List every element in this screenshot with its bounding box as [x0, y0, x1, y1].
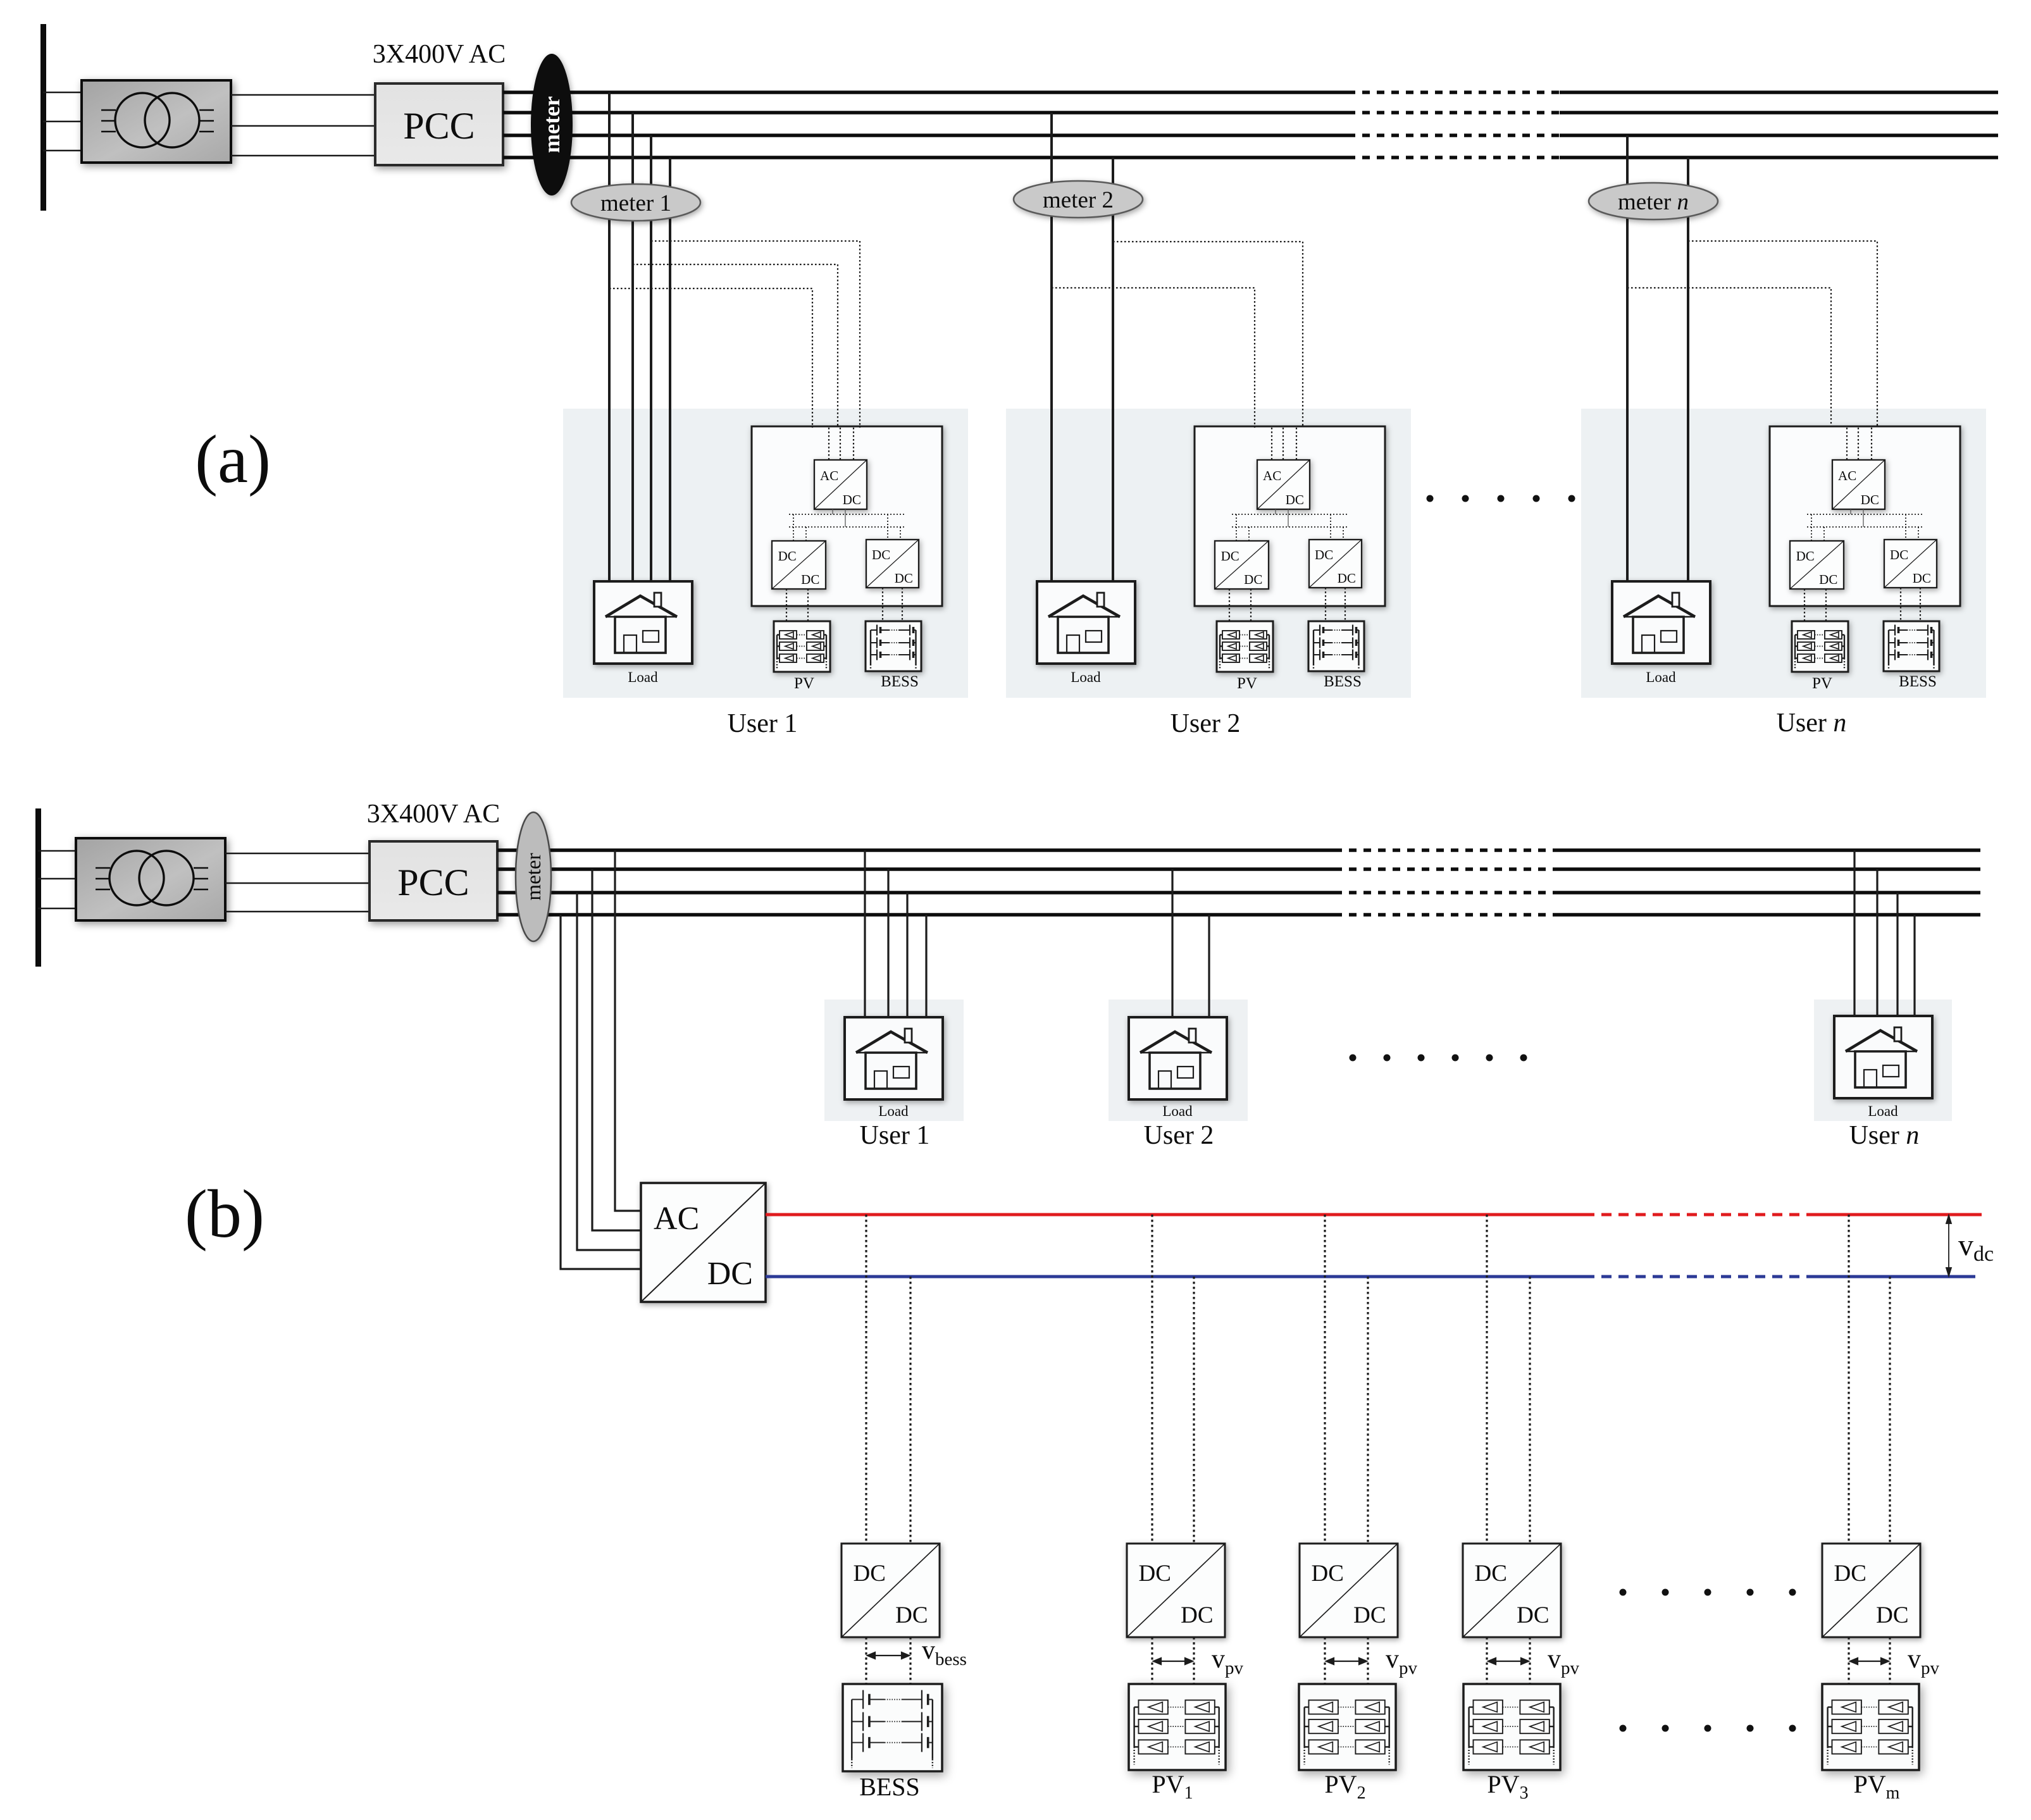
svg-text:AC: AC — [1838, 468, 1856, 483]
svg-text:DC: DC — [1834, 1561, 1866, 1587]
battery BESS icon user 2 (a) — [1308, 621, 1364, 671]
svg-text:(b): (b) — [185, 1177, 264, 1252]
wire bus to AC/DC inverter leg 3 (b) — [577, 893, 641, 1250]
svg-text:Load: Load — [628, 669, 658, 685]
wire AC/DC to DC link user 1 (a) — [833, 509, 845, 527]
inverter AC/DC user 1 (a) — [814, 460, 867, 509]
svg-text:PV: PV — [1237, 675, 1257, 692]
svg-text:DC: DC — [707, 1256, 753, 1292]
svg-text:Load: Load — [1071, 669, 1101, 685]
svg-text:meter 1: meter 1 — [600, 190, 671, 216]
load house icon user 2 (a) — [1037, 581, 1135, 664]
wire feeders to load user 2 (b) — [1172, 869, 1209, 1017]
grid bus bar (b) — [35, 808, 41, 967]
svg-text:Load: Load — [878, 1103, 909, 1119]
svg-text:Load: Load — [1868, 1103, 1898, 1119]
vpv arrow PVm (b) — [1850, 1658, 1889, 1664]
svg-text:DC: DC — [895, 1602, 928, 1628]
svg-text:3X400V AC: 3X400V AC — [367, 800, 500, 829]
converter DC/DC BESS (b) — [842, 1544, 940, 1637]
svg-text:User 2: User 2 — [1144, 1121, 1214, 1150]
converter DC/DC PV user 1 (a) — [772, 541, 826, 589]
battery BESS icon user n (a) — [1884, 621, 1939, 671]
svg-text:AC: AC — [820, 468, 838, 483]
wire DC link to BESS converter user 2 (a) — [1331, 514, 1343, 540]
continuation dots upper row between PV3 and PVm (b) — [1620, 1589, 1796, 1596]
svg-text:vdc: vdc — [1958, 1229, 1994, 1266]
wire dotted feeders into enclosure user 2 (a) — [1272, 428, 1296, 460]
svg-text:User 1: User 1 — [728, 709, 798, 738]
main meter (b) — [516, 812, 551, 941]
wire BESS converter to battery user 2 (a) — [1326, 588, 1345, 621]
wires transformer to PCC (b) — [225, 853, 370, 912]
load house icon user n (a) — [1612, 581, 1710, 664]
user n shaded area (a) — [1581, 409, 1986, 698]
svg-text:DC: DC — [1517, 1602, 1549, 1628]
svg-text:AC: AC — [1263, 468, 1281, 483]
svg-text:BESS: BESS — [1324, 673, 1362, 690]
wire bus to AC/DC inverter leg 2 (b) — [592, 869, 641, 1230]
wire grid bar to transformer (b) — [38, 851, 76, 908]
wire DC link to PV converter user 1 (a) — [793, 514, 806, 541]
svg-text:(a): (a) — [195, 422, 271, 497]
converter DC/DC PV user 2 (a) — [1215, 541, 1269, 589]
vdc arrow (b) — [1946, 1215, 1951, 1276]
load house icon user 1 (a) — [594, 581, 692, 664]
svg-text:vpv: vpv — [1386, 1645, 1418, 1678]
wire feeders meter n to load user n (a) — [1627, 135, 1688, 581]
svg-text:DC: DC — [1474, 1561, 1506, 1587]
wire red bus to PVm converter (b) — [1848, 1215, 1849, 1544]
converter DC/DC PVm (b) — [1822, 1544, 1920, 1637]
wire PV1 converter to array (b) — [1152, 1637, 1194, 1684]
grid bus bar (a) — [40, 24, 46, 211]
meter n ellipse (a) — [1589, 183, 1718, 220]
svg-text:DC: DC — [1913, 571, 1931, 586]
wire red bus to PV3 converter (b) — [1486, 1215, 1488, 1544]
PV array icon user n (a) — [1792, 621, 1848, 672]
transformer T1 (a) — [82, 80, 231, 163]
converter DC/DC PV user n (a) — [1790, 541, 1844, 589]
meter 2 ellipse (a) — [1014, 181, 1143, 218]
battery BESS icon user 1 (a) — [866, 621, 921, 671]
wire PV converter to PV array user n (a) — [1804, 589, 1826, 621]
wire feeders meter1 to load user 1 (a) — [609, 92, 670, 581]
converter DC/DC PV1 (b) — [1127, 1544, 1225, 1637]
inverter AC/DC user n (a) — [1832, 460, 1885, 509]
vpv arrow PV1 (b) — [1153, 1658, 1193, 1664]
PV array icon user 1 (a) — [774, 621, 830, 672]
wire dotted feeders into enclosure user 1 (a) — [829, 428, 854, 460]
wire bus to AC/DC inverter leg 1 (b) — [615, 850, 641, 1211]
wire red bus to BESS converter (b) — [865, 1215, 867, 1544]
svg-text:BESS: BESS — [1899, 673, 1937, 690]
user 1 converter enclosure (a) — [752, 426, 942, 606]
user 2 shaded area (b) — [1109, 1000, 1248, 1121]
wire DC link to BESS converter user 1 (a) — [888, 514, 900, 540]
DC bus positive red (b) — [766, 1213, 1584, 1216]
converter DC/DC BESS user 1 (a) — [866, 540, 919, 588]
wire dotted tap L3 user 1 (a) — [609, 288, 812, 428]
DC bus negative blue (b) — [766, 1275, 1584, 1278]
main meter (a) — [531, 54, 573, 195]
meter 1 ellipse (a) — [571, 184, 700, 221]
svg-text:DC: DC — [778, 548, 797, 564]
PV array icon PV3 (b) — [1463, 1684, 1560, 1770]
transformer T1 (b) — [76, 838, 225, 920]
wire BESS converter to battery (b) — [866, 1637, 910, 1684]
PV array icon PV1 (b) — [1129, 1684, 1226, 1770]
wire blue bus to BESS converter (b) — [909, 1277, 911, 1544]
wire BESS converter to battery user n (a) — [1901, 588, 1920, 621]
load house icon user 1 (b) — [845, 1017, 943, 1099]
wire feeders meter2 to load user 2 (a) — [1052, 113, 1113, 581]
svg-text:DC: DC — [843, 492, 861, 507]
wire blue bus to PVm converter (b) — [1889, 1277, 1891, 1544]
svg-text:DC: DC — [1221, 548, 1239, 564]
wire PV3 converter to array (b) — [1487, 1637, 1530, 1684]
svg-text:DC: DC — [1890, 547, 1908, 562]
load house icon user 2 (b) — [1129, 1017, 1227, 1099]
svg-text:vpv: vpv — [1548, 1645, 1580, 1678]
vpv arrow PV2 (b) — [1326, 1658, 1367, 1664]
svg-text:PCC: PCC — [403, 105, 475, 147]
svg-text:PVm: PVm — [1854, 1770, 1900, 1803]
wire dotted feeders into enclosure user n (a) — [1847, 428, 1872, 460]
user 2 converter enclosure (a) — [1195, 426, 1385, 606]
PCC box (a) — [375, 84, 503, 165]
svg-text:DC: DC — [1861, 492, 1879, 507]
svg-text:meter n: meter n — [1618, 189, 1689, 215]
svg-text:Load: Load — [1646, 669, 1676, 685]
wire dotted tap L2 user 1 (a) — [633, 264, 838, 428]
wire PV2 converter to array (b) — [1325, 1637, 1368, 1684]
svg-text:User 1: User 1 — [860, 1121, 930, 1150]
continuation dots between users (a) — [1427, 495, 1611, 502]
svg-text:DC: DC — [1819, 572, 1837, 587]
converter DC/DC BESS user 2 (a) — [1309, 540, 1362, 588]
central inverter AC/DC (b) — [641, 1183, 766, 1302]
wire dotted tap L1 user 2 (a) — [1113, 242, 1303, 428]
user n converter enclosure (a) — [1770, 426, 1960, 606]
svg-text:User 2: User 2 — [1171, 709, 1241, 738]
wire red bus to PV1 converter (b) — [1151, 1215, 1153, 1544]
svg-text:PV: PV — [1812, 675, 1832, 692]
svg-text:DC: DC — [895, 571, 913, 586]
vbess arrow (b) — [867, 1652, 909, 1659]
wire blue bus to PV2 converter (b) — [1367, 1277, 1369, 1544]
DC link bus user 2 (a) — [1232, 514, 1348, 527]
svg-text:PV2: PV2 — [1324, 1770, 1365, 1803]
wire blue bus to PV3 converter (b) — [1529, 1277, 1531, 1544]
wire AC/DC to DC link user n (a) — [1851, 509, 1863, 527]
AC bus phase 3 (b) — [497, 891, 1334, 895]
wire DC link to BESS converter user n (a) — [1906, 514, 1918, 540]
svg-text:BESS: BESS — [881, 673, 919, 690]
svg-text:DC: DC — [1876, 1602, 1908, 1628]
AC bus phase 2 (a) — [503, 111, 1348, 115]
user 2 shaded area (a) — [1006, 409, 1411, 698]
svg-text:DC: DC — [1181, 1602, 1213, 1628]
svg-text:DC: DC — [1796, 548, 1815, 564]
PV array icon PVm (b) — [1822, 1684, 1919, 1770]
wire PV converter to PV array user 1 (a) — [786, 589, 808, 621]
svg-text:DC: DC — [1311, 1561, 1343, 1587]
AC bus neutral (b) — [497, 913, 1334, 917]
wire blue bus to PV1 converter (b) — [1193, 1277, 1195, 1544]
wire dotted tap L2 user n (a) — [1627, 288, 1831, 426]
vpv arrow PV3 (b) — [1488, 1658, 1529, 1664]
inverter AC/DC user 2 (a) — [1257, 460, 1310, 509]
wire BESS converter to battery user 1 (a) — [883, 588, 902, 621]
wire grid bar to transformer (a) — [43, 92, 82, 151]
AC bus phase 1 (a) — [503, 90, 1348, 94]
svg-text:AC: AC — [654, 1201, 699, 1237]
svg-text:DC: DC — [801, 572, 819, 587]
svg-text:DC: DC — [1244, 572, 1262, 587]
DC link bus user 1 (a) — [789, 514, 905, 527]
svg-text:meter: meter — [523, 853, 545, 900]
svg-text:Load: Load — [1162, 1103, 1193, 1119]
svg-text:PV1: PV1 — [1152, 1770, 1193, 1803]
svg-text:vpv: vpv — [1212, 1645, 1244, 1678]
wire dotted tap L1 user 1 (a) — [651, 241, 860, 428]
svg-text:DC: DC — [853, 1561, 885, 1587]
svg-text:User n: User n — [1849, 1121, 1920, 1150]
wire bus to AC/DC inverter leg 4 (b) — [561, 915, 641, 1269]
converter DC/DC PV3 (b) — [1463, 1544, 1561, 1637]
PCC box (b) — [370, 841, 497, 920]
svg-text:vpv: vpv — [1908, 1645, 1940, 1678]
svg-text:PV: PV — [794, 675, 814, 692]
wire PV converter to PV array user 2 (a) — [1229, 589, 1251, 621]
svg-text:BESS: BESS — [859, 1773, 920, 1801]
wire DC link to PV converter user n (a) — [1811, 514, 1824, 541]
wire PVm converter to array (b) — [1849, 1637, 1890, 1684]
svg-text:DC: DC — [1353, 1602, 1386, 1628]
AC bus phase 3 (a) — [503, 133, 1348, 137]
svg-text:DC: DC — [1315, 547, 1333, 562]
svg-text:DC: DC — [1138, 1561, 1171, 1587]
svg-text:DC: DC — [1286, 492, 1304, 507]
wires transformer to PCC (a) — [231, 95, 375, 156]
converter DC/DC BESS user n (a) — [1884, 540, 1937, 588]
AC bus phase 2 (b) — [497, 867, 1334, 871]
continuation dots between users (b) — [1350, 1055, 1527, 1062]
wire feeders to load user 1 (b) — [865, 850, 926, 1017]
svg-text:3X400V AC: 3X400V AC — [373, 40, 506, 69]
wire AC/DC to DC link user 2 (a) — [1276, 509, 1288, 527]
svg-text:DC: DC — [872, 547, 890, 562]
svg-text:PCC: PCC — [397, 862, 469, 903]
wire feeders to load user n (b) — [1854, 850, 1915, 1017]
PV array icon user 2 (a) — [1217, 621, 1273, 672]
DC link bus user n (a) — [1807, 514, 1923, 527]
svg-text:vbess: vbess — [922, 1636, 967, 1669]
load house icon user n (b) — [1834, 1016, 1932, 1098]
svg-text:DC: DC — [1338, 571, 1356, 586]
AC bus neutral (a) — [503, 156, 1348, 159]
converter DC/DC PV2 (b) — [1300, 1544, 1398, 1637]
user n shaded area (b) — [1814, 1000, 1952, 1121]
continuation dots lower row between PV3 and PVm (b) — [1620, 1725, 1796, 1732]
wire DC link to PV converter user 2 (a) — [1236, 514, 1249, 541]
wire red bus to PV2 converter (b) — [1324, 1215, 1326, 1544]
svg-text:meter: meter — [539, 96, 564, 153]
wire dotted tap L1 user n (a) — [1688, 241, 1877, 426]
svg-text:meter 2: meter 2 — [1043, 187, 1114, 213]
svg-text:User n: User n — [1777, 709, 1847, 738]
PV array icon PV2 (b) — [1299, 1684, 1396, 1770]
svg-text:PV3: PV3 — [1487, 1770, 1528, 1803]
battery BESS icon (b) — [843, 1684, 942, 1771]
wire dotted tap L2 user 2 (a) — [1052, 288, 1255, 428]
user 1 shaded area (b) — [824, 1000, 964, 1121]
AC bus phase 1 (b) — [497, 848, 1334, 852]
user 1 shaded area (a) — [563, 409, 968, 698]
